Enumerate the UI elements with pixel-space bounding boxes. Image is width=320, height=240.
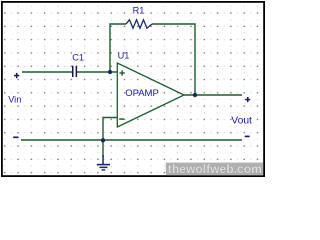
svg-text:C1: C1 [72,52,84,62]
svg-text:OPAMP: OPAMP [125,88,159,99]
svg-text:Vout: Vout [231,115,252,126]
svg-text:R1: R1 [133,6,145,16]
svg-text:Vin: Vin [8,94,21,104]
svg-text:U1: U1 [118,50,130,60]
svg-text:thewolfweb.com: thewolfweb.com [168,162,262,176]
